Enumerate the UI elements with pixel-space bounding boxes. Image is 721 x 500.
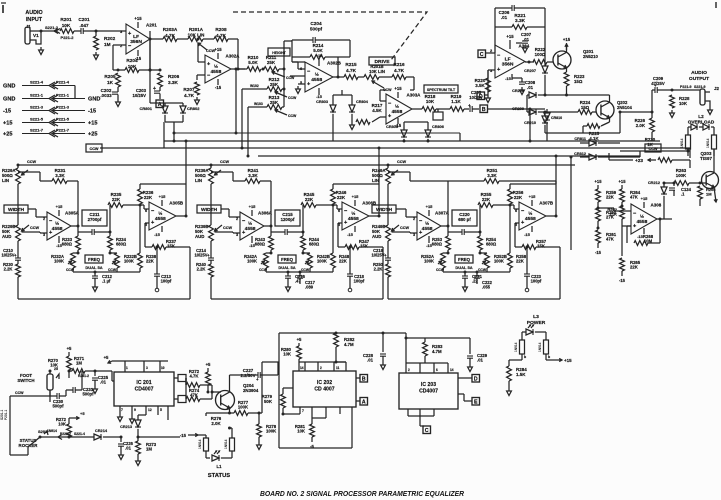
wire section to bus	[378, 147, 381, 185]
capacitor C211 2700pf	[78, 210, 112, 235]
svg-text:1M: 1M	[104, 42, 111, 47]
svg-text:+15: +15	[564, 358, 572, 363]
svg-text:CD4007: CD4007	[135, 387, 154, 393]
wire feedback drop R208	[228, 39, 240, 71]
svg-text:11: 11	[336, 366, 340, 370]
capacitor C219 10/25V	[371, 248, 391, 264]
svg-text:356N: 356N	[502, 62, 514, 68]
capacitor C218 100pf	[347, 247, 365, 292]
svg-text:2.0K: 2.0K	[211, 421, 221, 426]
svg-text:100K: 100K	[424, 259, 434, 264]
svg-text:10K: 10K	[426, 99, 435, 104]
transistor Q204 2N3904	[216, 383, 259, 410]
connector J1 audio input jack	[25, 10, 43, 44]
wire freq bottom rail	[443, 271, 510, 274]
svg-text:2: 2	[320, 366, 322, 370]
svg-text:C: C	[480, 52, 484, 58]
svg-text:2N5104: 2N5104	[617, 105, 633, 110]
svg-text:1M: 1M	[706, 191, 712, 196]
svg-text:+: +	[153, 86, 156, 92]
svg-text:CR811: CR811	[574, 137, 586, 141]
svg-text:+15: +15	[529, 194, 537, 199]
svg-text:−: −	[388, 101, 392, 107]
diode CR807	[544, 109, 562, 141]
diode CR209	[512, 95, 578, 115]
svg-text:356N: 356N	[130, 39, 142, 45]
wire to op-amp A306B	[333, 205, 342, 209]
wire width to op-amp	[221, 209, 240, 217]
wire input to R201	[41, 25, 60, 34]
svg-text:4.7K: 4.7K	[190, 374, 200, 379]
svg-text:100pf: 100pf	[531, 279, 542, 284]
power +15 above A302B	[316, 53, 324, 66]
svg-text:R205: R205	[104, 74, 116, 79]
power +15 above A305A	[56, 204, 64, 216]
svg-text:2: 2	[43, 217, 45, 221]
svg-text:4558: 4558	[422, 226, 433, 232]
svg-text:.055: .055	[482, 285, 491, 290]
height label box	[268, 48, 290, 56]
svg-text:C: C	[425, 428, 429, 434]
svg-text:DUAL 5A: DUAL 5A	[278, 265, 295, 270]
svg-text:.01: .01	[477, 358, 484, 363]
potentiometer R229B 50K AUD	[2, 224, 47, 248]
capacitor C217 .089	[297, 271, 316, 290]
svg-text:.1: .1	[681, 192, 685, 197]
resistor R215 4.7K	[344, 62, 364, 79]
resistor R201 10K	[60, 17, 74, 40]
svg-text:P221-7: P221-7	[56, 128, 70, 133]
status rocker label	[19, 429, 49, 448]
wire +15 to L3	[546, 358, 572, 363]
power +15 above A307A	[426, 204, 434, 216]
resistor R219 1.1K	[436, 94, 469, 111]
svg-text:P221-1: P221-1	[56, 93, 70, 98]
svg-text:½: ½	[528, 210, 532, 217]
svg-text:4558: 4558	[245, 226, 256, 232]
svg-text:25K: 25K	[270, 82, 279, 87]
diode CR805	[386, 122, 407, 143]
boxed terminal E at IC203	[458, 394, 480, 405]
svg-text:6: 6	[436, 368, 438, 372]
svg-text:10: 10	[161, 366, 165, 370]
svg-text:4.7K: 4.7K	[394, 68, 405, 73]
wire A306B output loop	[369, 184, 381, 218]
svg-text:+15: +15	[394, 86, 402, 91]
svg-text:D: D	[474, 376, 478, 382]
svg-text:CCW: CCW	[220, 160, 229, 164]
boxed terminal C at A304 input	[478, 50, 495, 58]
svg-text:DUAL 5A: DUAL 5A	[85, 265, 102, 270]
capacitor C203 10/25V electrolytic	[133, 86, 160, 99]
resistor R241 3.3K	[211, 168, 271, 183]
svg-text:+15: +15	[316, 53, 324, 58]
resistor R262 21K	[607, 205, 624, 227]
svg-text:+: +	[207, 61, 211, 67]
wire width to op-amp	[396, 209, 417, 217]
diode CR207	[524, 62, 548, 97]
svg-text:10K: 10K	[679, 101, 688, 106]
resistor R264 47K	[619, 179, 641, 206]
svg-text:S221-5: S221-5	[30, 117, 44, 122]
potentiometer R232B 100K	[108, 253, 137, 272]
svg-text:.1 µf: .1 µf	[102, 279, 111, 284]
svg-text:4.7K: 4.7K	[184, 93, 195, 98]
svg-text:4.7M: 4.7M	[344, 342, 354, 347]
svg-text:+15: +15	[563, 37, 571, 42]
svg-text:CR212: CR212	[648, 180, 661, 185]
resistor R276 2.0K	[206, 413, 230, 426]
wire CR214 to Q204 area	[138, 436, 180, 438]
svg-text:3.3K: 3.3K	[487, 173, 497, 178]
capacitor C214 10/25V	[194, 248, 214, 264]
driver 1N914 right	[706, 135, 717, 156]
resistor R266 1M	[698, 182, 717, 207]
wire A201 output node	[149, 38, 164, 41]
LED L3	[522, 325, 546, 340]
svg-text:47K: 47K	[606, 237, 615, 242]
svg-text:25: 25	[54, 367, 58, 371]
svg-text:47K: 47K	[630, 195, 639, 200]
driver 1N914 right of L1	[224, 427, 235, 459]
IC202 top pins	[299, 362, 346, 371]
IC201 bottom pins	[120, 406, 168, 420]
rocker switch S203	[10, 429, 57, 455]
bus wire 1	[164, 140, 660, 142]
op-amp A306B 4558	[338, 201, 377, 231]
svg-text:CR803: CR803	[316, 100, 328, 104]
svg-text:−: −	[633, 211, 637, 217]
svg-text:4558: 4558	[636, 219, 647, 225]
wire to op-amp A305B	[140, 205, 149, 209]
power +15 above A308	[641, 196, 649, 208]
svg-text:+5: +5	[67, 346, 72, 351]
resistor R275 10K	[206, 372, 211, 394]
svg-text:680Ω: 680Ω	[62, 242, 73, 247]
capacitor C134 .1	[669, 182, 692, 197]
svg-text:CR210: CR210	[524, 121, 536, 125]
capacitor C225 .01	[92, 370, 109, 394]
svg-text:.01: .01	[125, 446, 131, 451]
svg-text:4.7K: 4.7K	[346, 68, 357, 73]
Q203 emitter arrow	[714, 187, 717, 202]
resistor R274 47K	[186, 388, 212, 401]
wire mixer right vertical	[283, 41, 293, 107]
svg-text:+: +	[14, 253, 17, 258]
L3 power label	[527, 314, 546, 326]
wire A305B output loop	[176, 184, 188, 218]
svg-text:WIDTH: WIDTH	[201, 207, 218, 213]
resistor R259 22K	[595, 179, 617, 208]
capacitor C215 1200pf	[271, 210, 305, 235]
wire C225 to IC201	[95, 371, 114, 381]
svg-text:.01: .01	[501, 15, 508, 20]
power +15 above A306A	[249, 204, 257, 216]
svg-text:−: −	[307, 69, 311, 75]
svg-text:-15: -15	[347, 232, 354, 237]
capacitor C228 .01	[363, 332, 386, 370]
svg-text:680Ω: 680Ω	[486, 242, 497, 247]
resistor R280 10K	[281, 346, 302, 371]
svg-text:CR805: CR805	[386, 125, 398, 129]
svg-text:.01: .01	[100, 380, 107, 385]
boxed terminal A below C203	[156, 100, 164, 108]
diode CR802	[180, 103, 200, 122]
resistor R222 100	[533, 47, 553, 64]
power +15 above A307B	[529, 194, 537, 206]
wire wipers to A302B	[290, 75, 305, 77]
power -15 below A305B	[154, 226, 162, 237]
svg-text:A302B: A302B	[327, 61, 342, 66]
resistor R231 3.3K	[18, 168, 78, 183]
svg-text:1M: 1M	[76, 361, 82, 366]
svg-text:b: b	[524, 355, 527, 359]
resistor R203A 4.7K	[163, 27, 188, 41]
wire to op-amp A307B	[510, 205, 519, 209]
power -15 below A307A	[426, 236, 433, 248]
resistor R270 10K	[48, 356, 72, 378]
resistor R214 5.0K	[292, 40, 350, 62]
svg-text:2.2K: 2.2K	[197, 267, 206, 272]
resistor R272b 10K	[56, 411, 86, 439]
capacitor C231 500pf	[66, 371, 94, 397]
capacitor C206 .01	[495, 5, 545, 62]
resistor R247 15K	[338, 223, 383, 249]
potentiometer R201B 10K LIN	[364, 64, 392, 92]
svg-text:A307B: A307B	[539, 201, 554, 206]
svg-text:22K: 22K	[482, 197, 491, 202]
svg-text:4558: 4558	[348, 216, 359, 222]
svg-text:½: ½	[248, 220, 252, 227]
svg-text:FREQ: FREQ	[88, 257, 101, 262]
svg-text:WIDTH: WIDTH	[376, 207, 393, 213]
driver 1N914 left	[680, 135, 691, 156]
ccw box right	[645, 144, 661, 152]
svg-text:-5: -5	[310, 444, 314, 449]
resistor R268 10M	[627, 218, 662, 246]
potentiometer R252A 100K	[421, 252, 449, 273]
freq label box	[85, 255, 103, 270]
power -15 below A306A	[249, 236, 256, 248]
resistor R223 15	[564, 68, 585, 97]
svg-text:4558: 4558	[52, 226, 63, 232]
svg-text:22K: 22K	[305, 197, 314, 202]
svg-text:22K: 22K	[339, 259, 348, 264]
svg-text:22K: 22K	[146, 259, 155, 264]
power +5 above R275	[206, 362, 211, 372]
potentiometer R212 25K	[241, 77, 298, 150]
svg-text:4558: 4558	[311, 77, 322, 83]
svg-text:P221-5: P221-5	[56, 117, 70, 122]
wire left run	[0, 391, 50, 455]
svg-text:A305B: A305B	[169, 201, 184, 206]
svg-text:1.1K: 1.1K	[451, 99, 461, 104]
capacitor C209 47/25V	[651, 76, 668, 93]
wire section bottom loop	[211, 247, 383, 299]
op-amp A306A 4558	[236, 211, 273, 241]
wire A306A output	[264, 181, 273, 232]
resistor R205 1K	[104, 69, 120, 88]
svg-text:−: −	[151, 208, 155, 214]
op-amp A308 4558	[631, 203, 662, 235]
svg-text:IC 203: IC 203	[421, 382, 436, 388]
resistor R253 680	[432, 232, 451, 253]
op-amp A304 LF356N	[490, 44, 530, 79]
svg-text:L1: L1	[217, 464, 223, 469]
svg-text:100K: 100K	[247, 259, 257, 264]
resistor R246 22K	[331, 184, 379, 207]
svg-text:R201: R201	[60, 17, 72, 22]
resistor R208 4.7K	[203, 27, 228, 41]
svg-text:INPUT: INPUT	[26, 17, 43, 23]
resistor R234 680	[108, 232, 127, 255]
svg-text:10/25V: 10/25V	[194, 253, 207, 258]
svg-text:AUD: AUD	[195, 234, 204, 239]
LED L2 overload diodes	[688, 124, 714, 135]
svg-text:-15: -15	[88, 109, 96, 115]
svg-text:CR802: CR802	[187, 106, 200, 111]
svg-text:W103: W103	[254, 102, 263, 106]
svg-text:1M: 1M	[146, 447, 152, 452]
resistor R281 10K	[295, 414, 326, 449]
svg-text:CR209: CR209	[512, 107, 524, 111]
svg-text:R204: R204	[126, 58, 138, 63]
wire output node down	[149, 31, 184, 103]
svg-text:2N5210: 2N5210	[583, 54, 599, 59]
resistor R260 27K	[596, 207, 617, 229]
resistor R240 2.2K	[196, 262, 213, 299]
svg-text:S221-4: S221-4	[30, 80, 44, 85]
svg-text:1200pf: 1200pf	[281, 217, 295, 222]
svg-text:680Ω: 680Ω	[116, 242, 127, 247]
svg-text:S221-3: S221-3	[30, 105, 44, 110]
diode CR803	[316, 95, 336, 141]
svg-text:CD 4007: CD 4007	[314, 387, 334, 393]
svg-text:R281-2: R281-2	[78, 374, 89, 378]
resistor R261 47K	[595, 227, 617, 256]
svg-text:S221-1: S221-1	[30, 93, 44, 98]
wire width to op-amp	[28, 209, 47, 217]
svg-text:2700pf: 2700pf	[88, 217, 102, 222]
boxed terminal D at A304	[477, 70, 488, 100]
svg-text:10K: 10K	[58, 422, 67, 427]
svg-text:−: −	[497, 53, 501, 59]
wire +23 feed	[609, 153, 633, 160]
ground below C202	[116, 99, 121, 107]
+23 supply arrow	[635, 158, 690, 168]
node after C201	[95, 30, 127, 33]
boxed terminal B after C205	[480, 105, 545, 143]
svg-text:CR213: CR213	[120, 425, 132, 429]
svg-text:+25: +25	[3, 132, 13, 138]
freq label box	[278, 255, 296, 270]
svg-text:1N914: 1N914	[514, 342, 518, 352]
svg-text:SPECTRUM TILT: SPECTRUM TILT	[427, 88, 456, 92]
wire A304 output	[525, 61, 534, 64]
capacitor C208 .01	[505, 74, 536, 95]
spectrum tilt label box	[424, 85, 458, 93]
potentiometer R211 25K	[264, 55, 295, 80]
svg-text:+: +	[384, 253, 387, 258]
resistor R263 100K	[664, 168, 697, 185]
connector row GND S221-4/P221-4	[3, 80, 75, 99]
svg-text:S221-7: S221-7	[30, 128, 44, 133]
power +15 above A305B	[159, 194, 167, 206]
svg-text:AUDIO: AUDIO	[25, 10, 42, 16]
svg-text:1: 1	[126, 366, 128, 370]
svg-text:+15: +15	[134, 16, 142, 21]
svg-text:4558: 4558	[525, 216, 536, 222]
svg-text:22K: 22K	[144, 195, 153, 200]
svg-text:100pf: 100pf	[354, 279, 365, 284]
svg-text:CR804: CR804	[356, 100, 369, 104]
power +5 above R270	[67, 346, 72, 356]
svg-text:500pf: 500pf	[82, 392, 94, 397]
wire R277 to IC202	[259, 362, 262, 413]
svg-text:+: +	[128, 31, 132, 37]
resistor R204 10K feedback	[118, 58, 160, 72]
svg-text:10K LIN: 10K LIN	[188, 33, 205, 38]
svg-text:15Ω: 15Ω	[574, 79, 583, 84]
capacitor C220 680 pf	[448, 210, 482, 235]
svg-text:CCW: CCW	[15, 391, 24, 395]
wire diodes to bus	[165, 122, 183, 143]
svg-text:1N914: 1N914	[198, 439, 202, 449]
width label box	[197, 205, 221, 213]
big feedback loop wire	[262, 333, 406, 448]
svg-text:WIDTH: WIDTH	[8, 207, 25, 213]
svg-text:A: A	[362, 399, 366, 405]
svg-text:−: −	[521, 208, 525, 214]
svg-text:4.7M: 4.7M	[432, 349, 442, 354]
boxed terminal C below IC203	[420, 426, 431, 434]
svg-text:100K: 100K	[54, 259, 64, 264]
title text	[260, 489, 465, 498]
potentiometer R242A 100K	[244, 252, 272, 273]
svg-text:2: 2	[413, 217, 415, 221]
svg-text:2.2K: 2.2K	[374, 267, 383, 272]
svg-text:.01: .01	[527, 85, 534, 90]
resistor R254 680	[478, 232, 497, 255]
op-amp A307B 4558	[515, 201, 554, 231]
wire section bottom loop	[18, 247, 190, 299]
resistor R243 680	[255, 232, 274, 253]
svg-text:5.0K: 5.0K	[248, 60, 258, 65]
diode CR208	[512, 89, 566, 98]
svg-text:+15: +15	[249, 204, 257, 209]
power +15 above A201	[134, 16, 142, 28]
svg-text:CD4007: CD4007	[419, 389, 438, 395]
svg-text:22K: 22K	[516, 259, 525, 264]
power -15 below A201	[135, 50, 142, 61]
wire section to bus	[555, 155, 558, 185]
resistor R210 5.0K	[238, 55, 265, 71]
wire section bottom loop	[388, 247, 560, 299]
op-amp A305B 4558	[145, 201, 184, 231]
svg-text:J2: J2	[714, 86, 719, 91]
svg-text:+23: +23	[635, 158, 643, 163]
svg-text:B: B	[482, 107, 486, 113]
svg-text:S221-4: S221-4	[74, 432, 85, 436]
potentiometer R239B 50K AUD	[195, 224, 240, 248]
resistor R220 3.5K	[475, 70, 495, 103]
svg-text:10/25V: 10/25V	[133, 93, 147, 98]
svg-text:P221-9: P221-9	[680, 85, 692, 89]
transistor Q203 TIS97	[697, 151, 719, 189]
resistor R251 3.3K	[388, 168, 556, 184]
wire Q203 collector	[713, 149, 715, 172]
svg-text:3.3K: 3.3K	[55, 173, 65, 178]
